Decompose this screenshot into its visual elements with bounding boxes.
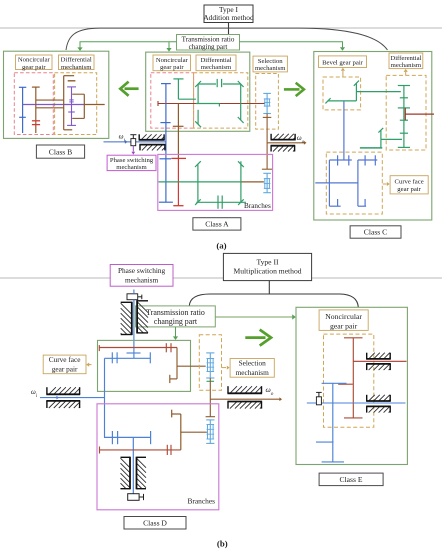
svg-text:Multiplication method: Multiplication method: [233, 267, 301, 276]
purple arrow to phase switching box (a): [131, 146, 135, 155]
brown right bracket upper (D): [170, 348, 206, 384]
svg-text:Selection: Selection: [239, 359, 267, 368]
input bearing upper (b): [49, 387, 56, 394]
blue noncircular shaft (A): [159, 84, 173, 203]
svg-text:mechanism: mechanism: [236, 368, 270, 377]
input bearing lower (a): [142, 145, 148, 151]
svg-text:Class A: Class A: [205, 219, 229, 228]
brown selection shaft through bearing (A): [262, 114, 272, 170]
svg-text:Differential: Differential: [390, 55, 421, 62]
Differential mechanism label (C): [389, 53, 423, 69]
red output shaft (C): [405, 108, 434, 120]
noncircular dashed box (A): [151, 73, 194, 128]
svg-text:Bevel gear pair: Bevel gear pair: [322, 59, 364, 66]
top page rule: [0, 27, 442, 29]
violet spline bar (b sel): [207, 380, 215, 382]
svg-text:(a): (a): [216, 241, 226, 251]
blue curve face assembly upper (D): [105, 352, 151, 363]
green differential right side gear (A): [238, 84, 244, 123]
green bevel differential (A): top bar with pinion: [195, 79, 243, 87]
selection dashed box (A): [256, 74, 279, 130]
Phase switching mechanism box (a): [107, 155, 156, 171]
Class E outer box: [296, 307, 407, 464]
brown top gear rail (D): [99, 343, 177, 352]
svg-text:Curve face: Curve face: [395, 178, 424, 185]
Noncircular gear pair label (B): [16, 55, 53, 71]
green connector to Class C: [240, 42, 346, 51]
branches green left bevel shaft (A): [195, 161, 201, 205]
blue left riser shaft (D): [104, 358, 106, 437]
svg-text:Branches: Branches: [244, 202, 271, 210]
arrow into curve face label (b): [86, 363, 91, 367]
differential dashed box (B): [55, 73, 97, 135]
Type II Multiplication method box: [223, 253, 311, 280]
bottom bearing left (D): [121, 458, 131, 468]
selection clutch lower (b): [206, 420, 214, 444]
input bearing lower (b): [49, 401, 56, 408]
Branches magenta box (A): [158, 154, 273, 210]
bottom bearing right (D): [137, 458, 147, 468]
brown bottom gear rail (D): [100, 445, 181, 455]
omega_o output line (b): [210, 397, 282, 401]
svg-text:Branches: Branches: [188, 497, 216, 506]
dark red input line (A): [158, 101, 265, 106]
svg-text:Differential: Differential: [200, 57, 231, 64]
bevel gear pair schematic (C): [325, 81, 400, 104]
green arrow from transmission box down (b): [173, 327, 178, 340]
svg-text:Class B: Class B: [49, 148, 72, 157]
svg-text:mechanism: mechanism: [255, 65, 286, 72]
selection shaft lower clutch (A): [263, 173, 271, 192]
Phase switching mechanism box (b): [110, 265, 173, 287]
blue axis line with clutch (E): [307, 392, 406, 404]
svg-text:gear pair: gear pair: [397, 186, 421, 193]
svg-text:Noncircular: Noncircular: [156, 57, 189, 64]
bottom clutch symbol (D): [128, 494, 144, 501]
output bearing lower (a): [273, 146, 279, 152]
phase bearing right (b): [137, 302, 148, 313]
differential dashed box (A): [194, 73, 248, 128]
bevel dashed box (C): [323, 77, 361, 110]
brown output line (E): [353, 360, 406, 362]
purple sun shaft (B differential): [67, 87, 76, 126]
branches green line upper (A): [159, 181, 241, 183]
brown noncircular gear shaft (B): [32, 87, 64, 133]
small bevel link to curve face (C): [360, 128, 402, 148]
Differential mechanism label (A): [196, 55, 236, 71]
omega_o output line (a): [267, 141, 306, 145]
Class B label: [36, 145, 84, 158]
black bracket to Class B and Class C: [66, 28, 388, 50]
Class D transmission green box: [98, 340, 191, 391]
Type I Addition method box: [203, 5, 254, 23]
Noncircular gear pair label (E): [319, 310, 368, 331]
arrow from differential dashed box up to label (C): [404, 69, 408, 76]
svg-text:mechanism: mechanism: [116, 164, 147, 171]
blue gear shaft (E): [316, 383, 347, 462]
arrow from bevel dashed box up to label (C): [341, 68, 345, 77]
Class C outer box: [314, 52, 432, 221]
Class A outer box: [146, 52, 250, 131]
output bearing lower (b): [230, 402, 237, 409]
brown right bracket lower (D): [172, 410, 207, 450]
differential gear shaft (C): [398, 86, 410, 148]
Class A label: [193, 218, 241, 230]
svg-text:Phase switching: Phase switching: [118, 266, 166, 275]
curve face axis line (C): [315, 182, 358, 184]
svg-text:mechanism: mechanism: [125, 276, 159, 285]
middle page rule: [0, 277, 442, 279]
brown carrier shaft (A): [173, 104, 184, 159]
red gear marks (B): [32, 121, 40, 125]
green connector to Class B: [77, 42, 176, 51]
selection dashed box (b): [199, 335, 221, 391]
svg-text:Class C: Class C: [364, 228, 387, 237]
svg-text:Addition method: Addition method: [203, 13, 254, 22]
Transmission ratio changing part box (a): [177, 35, 240, 51]
svg-text:Transmission ratio: Transmission ratio: [146, 308, 205, 317]
svg-text:mechanism: mechanism: [391, 62, 422, 69]
lower bearing pair (E): [369, 395, 375, 401]
Transmission ratio changing part box (b): [136, 306, 216, 327]
svg-text:Noncircular: Noncircular: [325, 312, 362, 321]
noncircular dashed box (B): [14, 73, 53, 135]
upper bearing pair (E): [369, 353, 375, 359]
Class E label: [319, 473, 383, 486]
svg-text:Class E: Class E: [340, 475, 363, 484]
blue gear bar on center shaft (D): [127, 352, 141, 354]
Class D label: [124, 517, 186, 530]
blue shaft with gears (B noncircular): [19, 87, 26, 133]
gray link to Class E with green arrow: [215, 314, 295, 319]
red branch shaft with gear caps (A): [171, 158, 186, 205]
curve face dashed box (C): [326, 152, 382, 214]
differential dashed box (C): [386, 75, 426, 150]
Noncircular gear pair label (A): [153, 55, 191, 71]
Bevel gear pair label (C): [319, 56, 367, 68]
svg-text:gear pair: gear pair: [160, 64, 184, 71]
blue input line with arrow (a): [104, 140, 167, 144]
svg-text:Curve face: Curve face: [49, 355, 81, 364]
arrow from selection box to label (b): [222, 366, 230, 370]
svg-text:mechanism: mechanism: [201, 64, 232, 71]
blue vertical shaft through phase bearing (b): [133, 290, 135, 294]
Class C label: [350, 226, 401, 238]
output bearing upper (a): [273, 134, 279, 140]
purple output shaft (B): [23, 104, 85, 106]
branches green bottom bar with pinion (A): [196, 196, 246, 209]
svg-text:Phase switching: Phase switching: [110, 157, 154, 164]
branches green right bevel shaft (A): [238, 161, 244, 205]
selection clutch upper (b): [206, 353, 214, 378]
blue input line (b): [40, 396, 104, 400]
curve face gear left (C): [329, 155, 351, 206]
big green arrow right (a): [284, 83, 304, 96]
brown ring gear (B): [72, 94, 105, 118]
blue curve face assembly lower (D): [104, 431, 151, 444]
brown differential carrier (B): [64, 76, 76, 130]
green connector to Class A: [166, 42, 171, 52]
Branches magenta box (D): [97, 404, 219, 510]
branches brown link to clutch (A): [241, 181, 264, 183]
Class B outer box: [4, 51, 109, 138]
svg-text:Differential: Differential: [61, 57, 92, 64]
blue lower shaft to bottom bearing (D): [132, 437, 134, 493]
selection shaft upper clutch (A): [263, 93, 271, 113]
svg-text:(b): (b): [217, 538, 228, 548]
Differential mechanism label (B): [59, 55, 95, 71]
phase switch clutch symbol (b): [127, 294, 142, 300]
output bearing upper (b): [230, 386, 237, 393]
svg-text:Noncircular: Noncircular: [18, 57, 51, 64]
phase switch clutch symbol (a): [130, 135, 136, 146]
Curve face gear pair label (C): [390, 176, 428, 194]
Curve face gear pair label (b): [43, 355, 86, 374]
brown noncircular shaft (E): [338, 338, 362, 418]
brown selection shaft (b): [206, 378, 215, 417]
Selection mechanism label (A): [253, 56, 287, 72]
Selection mechanism label (b): [230, 359, 274, 378]
svg-text:gear pair: gear pair: [22, 64, 46, 71]
svg-text:mechanism: mechanism: [61, 64, 92, 71]
big green arrow right (b): [245, 330, 271, 346]
phase bearing left (b): [121, 303, 132, 314]
curve face gear right (C): [358, 155, 377, 206]
black bracket from Type II: [268, 281, 270, 294]
svg-text:Type II: Type II: [256, 257, 278, 266]
svg-text:Selection: Selection: [258, 58, 284, 65]
green differential left side gear + carrier (A): [195, 84, 219, 127]
svg-text:gear pair: gear pair: [330, 321, 358, 330]
svg-text:changing part: changing part: [154, 317, 198, 326]
arrow from curve face box to label (C): [383, 182, 390, 186]
input bearing upper (a): [141, 134, 147, 140]
svg-text:gear pair: gear pair: [52, 364, 78, 373]
noncircular dashed box (E): [324, 334, 374, 427]
big green arrow left: [120, 82, 138, 96]
green noncircular gear shaft (A): [173, 79, 196, 99]
blue shaft from bevel to curve face (C): [343, 101, 345, 160]
svg-text:changing part: changing part: [189, 43, 228, 51]
svg-text:Class D: Class D: [143, 518, 167, 527]
connector Type I to transmission box: [228, 23, 230, 35]
